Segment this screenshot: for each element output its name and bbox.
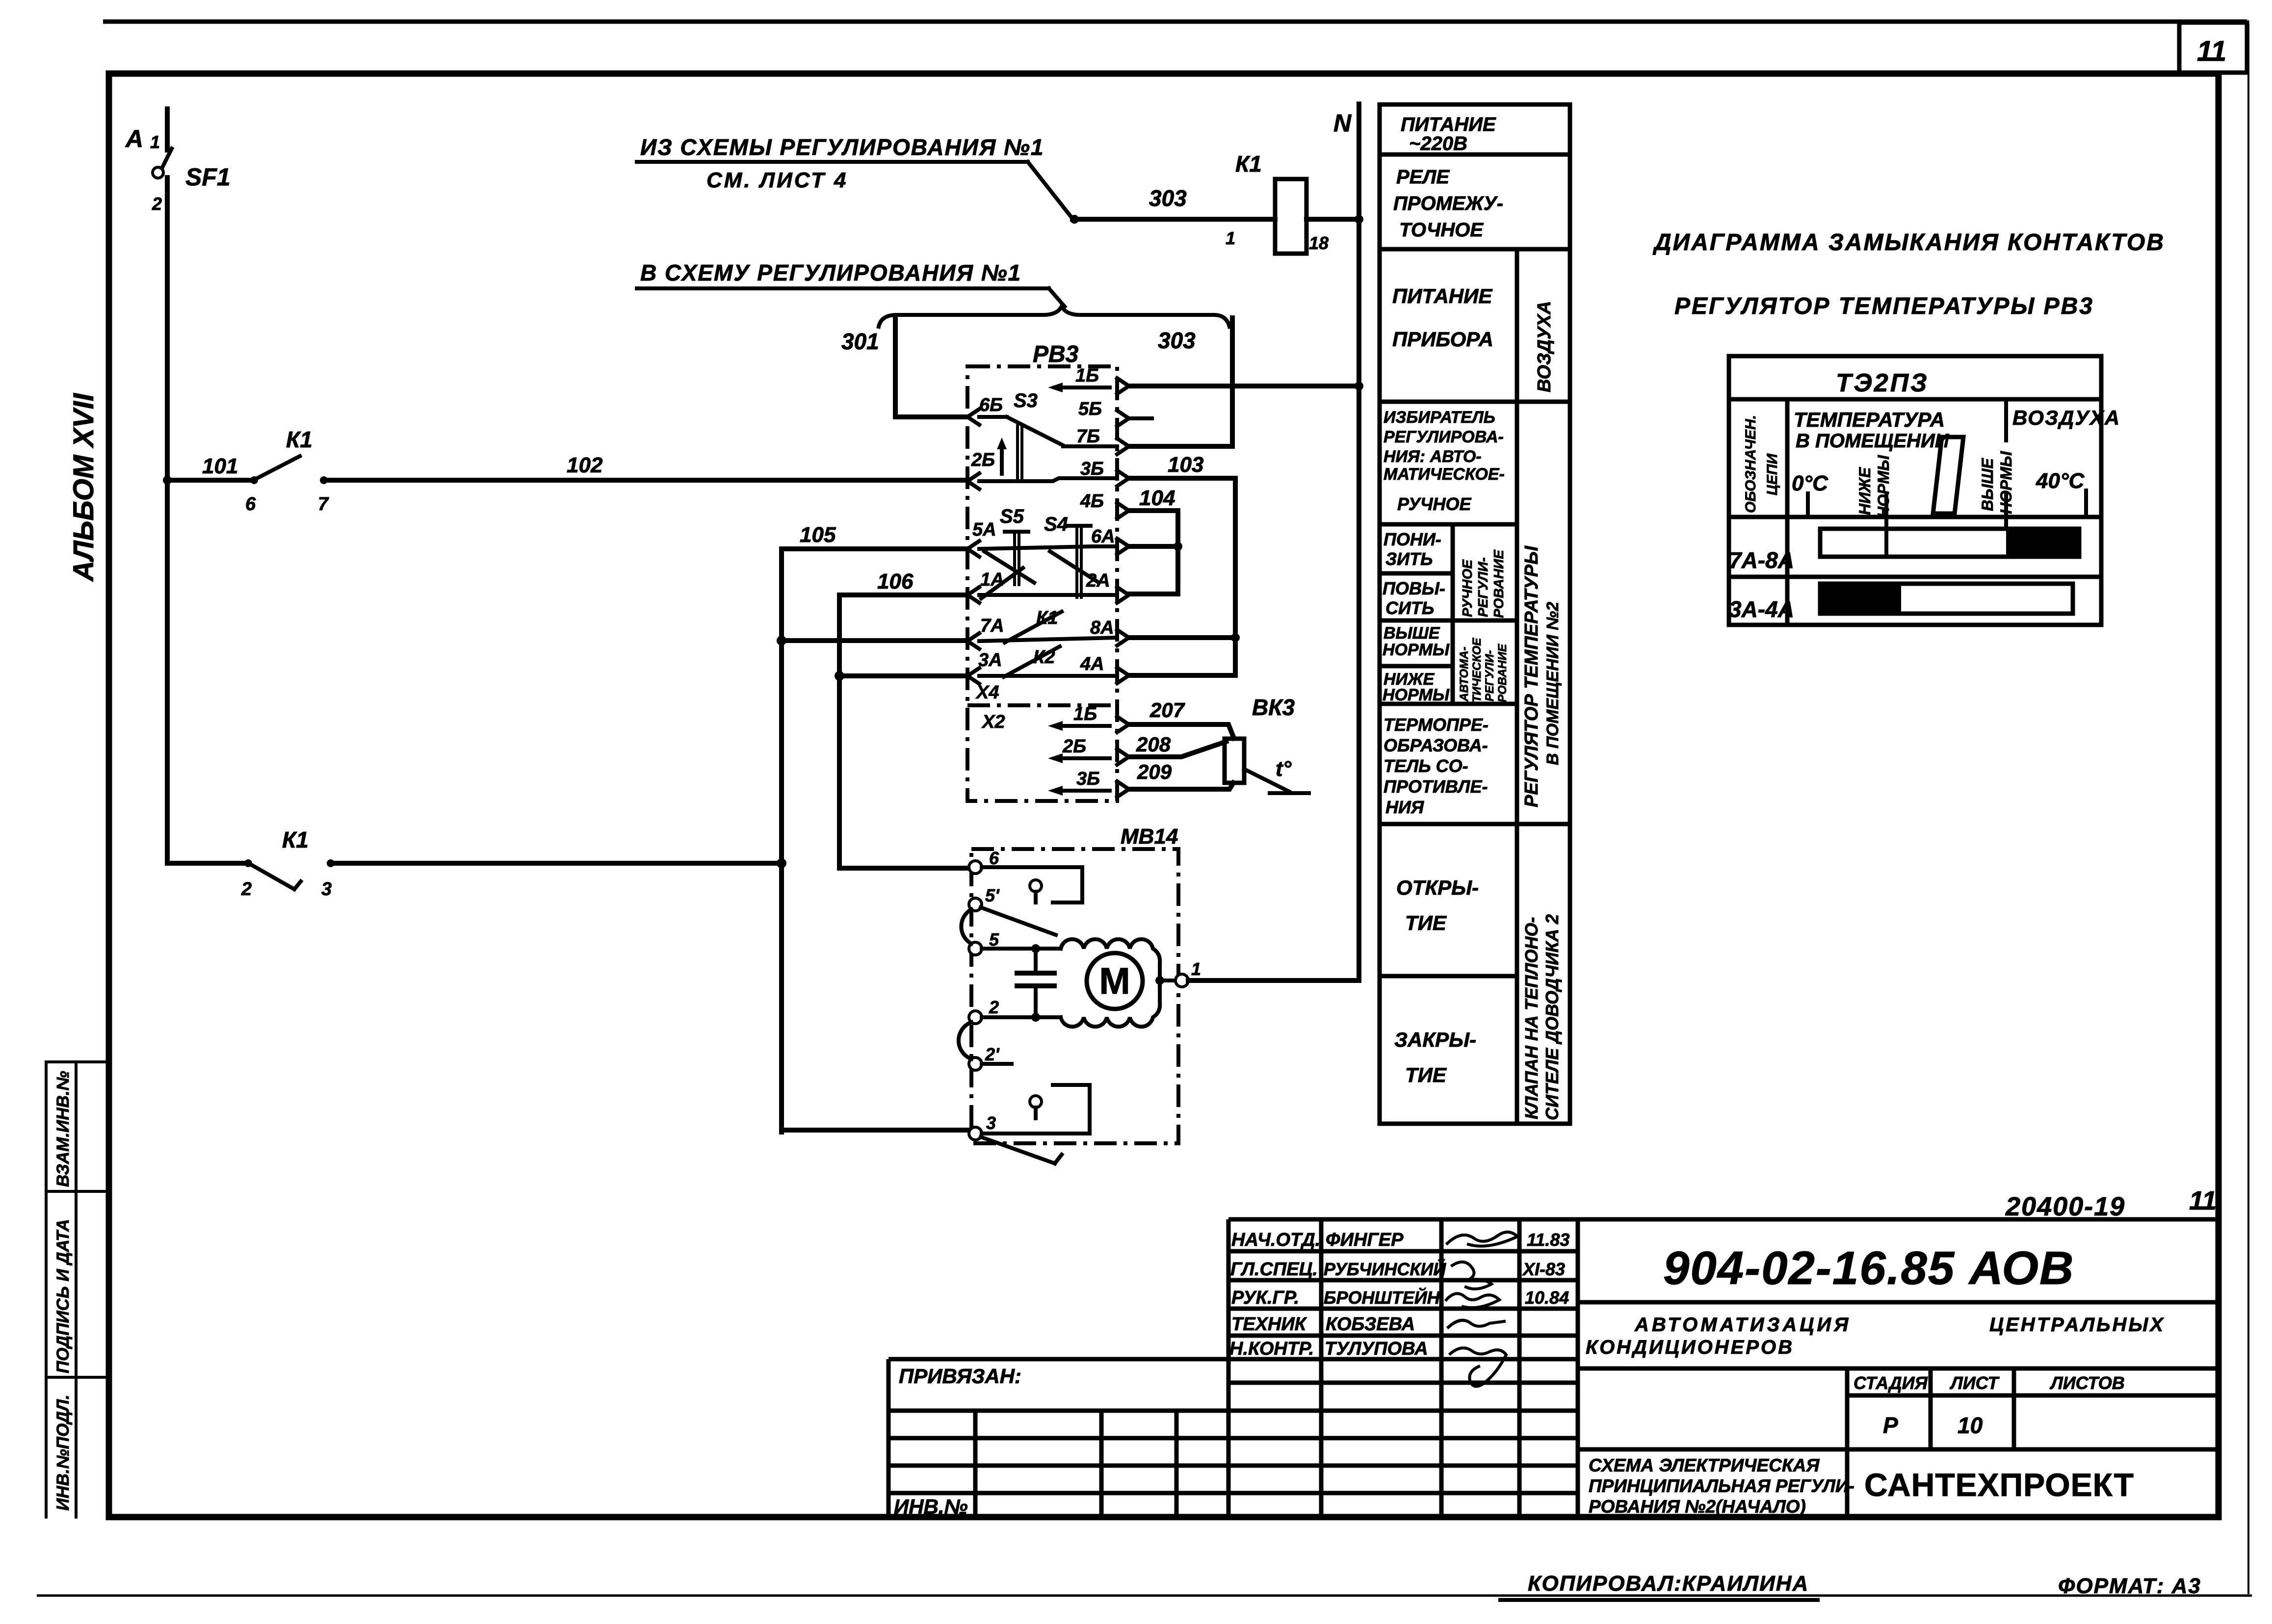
motor M circle: [1087, 953, 1143, 1009]
svg-text:Р: Р: [1883, 1413, 1898, 1438]
svg-text:ПОДПИСЬ И ДАТА: ПОДПИСЬ И ДАТА: [53, 1219, 73, 1373]
svg-text:ПРОТИВЛЕ-: ПРОТИВЛЕ-: [1384, 776, 1488, 797]
wire 207: [1129, 724, 1234, 738]
svg-text:ФИНГЕР: ФИНГЕР: [1326, 1230, 1404, 1250]
svg-text:ТЭ2ПЗ: ТЭ2ПЗ: [1836, 369, 1929, 397]
row 5A-6A internal wire: [979, 546, 1117, 549]
wire from bus A to motor terminal 3: [782, 1128, 970, 1132]
svg-text:А: А: [125, 125, 143, 153]
svg-text:3А-4А: 3А-4А: [1729, 596, 1794, 622]
brace over wires 301,303: [879, 306, 1229, 327]
svg-text:ВЗАМ.ИНВ.№: ВЗАМ.ИНВ.№: [53, 1071, 73, 1187]
row 1A-2A internal wire: [979, 593, 1117, 597]
svg-text:ОТКРЫ-: ОТКРЫ-: [1396, 876, 1479, 899]
svg-text:РУЧНОЕ: РУЧНОЕ: [1397, 494, 1472, 514]
breaker SF1 top lead: [165, 109, 170, 150]
svg-text:ИНВ.№: ИНВ.№: [894, 1495, 968, 1518]
diagram table frame: [1729, 356, 2101, 625]
switch S4 blade: [1050, 551, 1099, 583]
terminal 5A: [967, 541, 979, 557]
setpoint parallelogram: [1933, 437, 1963, 514]
svg-text:6А: 6А: [1091, 526, 1115, 547]
svg-text:ТОЧНОЕ: ТОЧНОЕ: [1399, 219, 1484, 241]
wire 106 to terminal 1A: [839, 593, 967, 597]
wire 301 vertical: [895, 318, 967, 417]
svg-text:НИЖЕ: НИЖЕ: [1856, 466, 1874, 515]
svg-text:РУЧНОЕ: РУЧНОЕ: [1460, 559, 1475, 617]
terminal 2: [969, 1011, 982, 1024]
direction arrow row 1B: [1056, 386, 1110, 389]
svg-text:СХЕМА ЭЛЕКТРИЧЕСКАЯ: СХЕМА ЭЛЕКТРИЧЕСКАЯ: [1589, 1455, 1820, 1475]
svg-text:6: 6: [989, 848, 999, 868]
wire 102: [324, 478, 967, 483]
svg-text:БРОНШТЕЙН: БРОНШТЕЙН: [1324, 1287, 1440, 1308]
svg-text:РЕГУЛЯТОР ТЕМПЕРАТУРЫ: РЕГУЛЯТОР ТЕМПЕРАТУРЫ: [1521, 545, 1542, 807]
svg-text:904-02-16.85 АОВ: 904-02-16.85 АОВ: [1663, 1242, 2074, 1294]
svg-text:N: N: [1333, 109, 1352, 137]
svg-text:7А: 7А: [980, 616, 1004, 636]
junction 6A/104: [1174, 542, 1182, 551]
wire 105 to terminal 5A: [782, 546, 967, 551]
svg-text:1: 1: [150, 132, 160, 152]
svg-text:ОБРАЗОВА-: ОБРАЗОВА-: [1384, 735, 1488, 755]
svg-text:ИНВ.№ПОДЛ.: ИНВ.№ПОДЛ.: [53, 1394, 73, 1511]
svg-text:СМ. ЛИСТ 4: СМ. ЛИСТ 4: [706, 168, 848, 192]
terminal 7A: [967, 633, 979, 649]
svg-text:ВЫШЕ: ВЫШЕ: [1384, 624, 1440, 643]
terminal 1A: [967, 587, 979, 603]
svg-text:SF1: SF1: [185, 163, 231, 191]
svg-text:ВК3: ВК3: [1252, 695, 1295, 720]
wire 104 (4B down to 6A,2A): [1129, 511, 1178, 594]
legend table frame: [1380, 104, 1570, 1124]
svg-text:Н.КОНТР.: Н.КОНТР.: [1229, 1339, 1314, 1359]
svg-text:5Б: 5Б: [1078, 399, 1102, 419]
wire from SF1 line to contact K1 (2-3): [167, 861, 245, 866]
wire 6A: [1129, 544, 1178, 549]
terminal 6A: [1117, 539, 1129, 554]
svg-text:7Б: 7Б: [1076, 426, 1100, 447]
svg-text:КОПИРОВАЛ:КРАИЛИНА: КОПИРОВАЛ:КРАИЛИНА: [1528, 1572, 1809, 1596]
limit switch top contact: [1030, 880, 1042, 892]
terminal 3B lower: [1117, 781, 1129, 797]
svg-text:2: 2: [989, 997, 999, 1017]
title block outline verticals: [1228, 1219, 1578, 1517]
setpoint up arrow: [1000, 445, 1004, 474]
row 3A-4A internal wire: [979, 674, 1117, 678]
wire 303 vertical to terminal 7B: [1128, 318, 1232, 446]
svg-text:РОВАНИЯ №2(НАЧАЛО): РОВАНИЯ №2(НАЧАЛО): [1589, 1496, 1806, 1517]
wire 208: [1129, 742, 1226, 757]
svg-text:ПРИНЦИПИАЛЬНАЯ РЕГУЛИ-: ПРИНЦИПИАЛЬНАЯ РЕГУЛИ-: [1589, 1476, 1854, 1496]
link bracket 5'-5: [961, 909, 971, 944]
switch S3 lead: [979, 415, 1007, 419]
svg-text:ТУЛУПОВА: ТУЛУПОВА: [1325, 1339, 1428, 1359]
svg-text:ЛИСТОВ: ЛИСТОВ: [2049, 1373, 2125, 1393]
svg-text:301: 301: [841, 329, 879, 354]
svg-text:ТЕХНИК: ТЕХНИК: [1231, 1314, 1307, 1335]
switch S5 blade: [984, 551, 1034, 583]
svg-text:0°С: 0°С: [1792, 471, 1828, 495]
svg-text:ЗАКРЫ-: ЗАКРЫ-: [1394, 1028, 1476, 1051]
svg-text:СИТЬ: СИТЬ: [1385, 598, 1434, 618]
relay coil K1: [1275, 179, 1306, 254]
leader to brace: [1049, 288, 1065, 307]
svg-text:ИЗБИРАТЕЛЬ: ИЗБИРАТЕЛЬ: [1384, 408, 1495, 427]
svg-text:В СХЕМУ РЕГУЛИРОВАНИЯ №1: В СХЕМУ РЕГУЛИРОВАНИЯ №1: [640, 260, 1021, 285]
stub at 5B: [1129, 416, 1152, 420]
junction N / 1B wire: [1355, 382, 1363, 390]
svg-text:РОВАНИЕ: РОВАНИЕ: [1496, 644, 1509, 702]
wire to terminal 1: [1160, 979, 1175, 982]
svg-text:РЕГУЛИРОВА-: РЕГУЛИРОВА-: [1384, 428, 1504, 446]
svg-text:1: 1: [1226, 228, 1235, 248]
limit switch top blade: [981, 907, 1056, 935]
svg-text:ВОЗДУХА: ВОЗДУХА: [1534, 301, 1555, 392]
connector X4/X2 divider: [967, 703, 1117, 707]
svg-text:МАТИЧЕСКОЕ-: МАТИЧЕСКОЕ-: [1384, 465, 1505, 484]
junction at 101 wire: [163, 476, 172, 485]
svg-text:АВТОМА-: АВТОМА-: [1458, 647, 1471, 702]
terminal 4B: [1117, 503, 1129, 518]
svg-text:104: 104: [1139, 486, 1175, 510]
svg-text:3: 3: [986, 1113, 996, 1133]
wire 1B to N: [1129, 384, 1359, 388]
svg-text:ТИЧЕСКОЕ: ТИЧЕСКОЕ: [1470, 638, 1484, 702]
wire to 7B: [1063, 444, 1117, 448]
contact bar 7A-8A: [1820, 529, 2079, 557]
regulator RV3 enclosure (dash-dot): [967, 366, 1117, 801]
junction 8A/103: [1231, 633, 1240, 642]
svg-text:106: 106: [877, 569, 914, 593]
svg-text:ПРОМЕЖУ-: ПРОМЕЖУ-: [1393, 193, 1503, 214]
switch S5 actuator: [1005, 530, 1028, 534]
svg-text:7: 7: [318, 494, 329, 515]
svg-text:11.83: 11.83: [1527, 1230, 1569, 1250]
svg-text:105: 105: [800, 523, 836, 547]
junction N / coil wire: [1355, 215, 1363, 224]
svg-text:ГЛ.СПЕЦ.: ГЛ.СПЕЦ.: [1230, 1259, 1318, 1280]
linked-project block frame: [888, 1359, 1228, 1517]
note underline: [637, 160, 1028, 164]
svg-text:101: 101: [202, 454, 238, 478]
svg-text:В ПОМЕЩЕНИИ: В ПОМЕЩЕНИИ: [1796, 430, 1950, 452]
svg-text:5А: 5А: [972, 519, 996, 540]
motor winding top: [1061, 939, 1160, 980]
junction bus A / 7A wire: [777, 636, 786, 645]
wire from bus B to motor terminal 6: [839, 866, 970, 871]
wire to terminal 3A: [839, 673, 967, 678]
svg-text:КЛАПАН НА ТЕПЛОНО-: КЛАПАН НА ТЕПЛОНО-: [1521, 917, 1541, 1119]
svg-text:2Б: 2Б: [971, 450, 995, 470]
svg-text:АВТОМАТИЗАЦИЯ: АВТОМАТИЗАЦИЯ: [1634, 1314, 1851, 1336]
sensor leader to t: [1244, 769, 1309, 793]
svg-text:К1: К1: [282, 827, 309, 852]
svg-text:3Б: 3Б: [1080, 459, 1104, 479]
junction cap/2 row: [1031, 1013, 1040, 1022]
svg-text:НОРМЫ: НОРМЫ: [1383, 641, 1450, 659]
svg-text:6Б: 6Б: [979, 395, 1003, 415]
svg-text:ТЕМПЕРАТУРА: ТЕМПЕРАТУРА: [1794, 408, 1945, 431]
S3 mechanical link bars: [1018, 426, 1022, 479]
terminal 5B: [1117, 411, 1129, 426]
svg-text:5: 5: [989, 929, 999, 950]
terminal 3A: [967, 668, 979, 684]
terminal 1B lower: [1117, 717, 1129, 732]
switch S3 blade: [1007, 417, 1063, 445]
limit switch bottom blade: [981, 1137, 1062, 1163]
svg-text:ТИЕ: ТИЕ: [1405, 1063, 1447, 1086]
switch S4 actuator: [1067, 524, 1091, 528]
svg-text:1А: 1А: [980, 569, 1004, 590]
staff grid rows: [1228, 1251, 1578, 1493]
note underline: [637, 286, 1049, 290]
svg-text:ОБОЗНАЧЕН.: ОБОЗНАЧЕН.: [1743, 415, 1759, 513]
svg-text:М: М: [1099, 960, 1130, 1002]
signature squiggles: [1447, 1232, 1517, 1246]
svg-text:ПРИВЯЗАН:: ПРИВЯЗАН:: [899, 1365, 1021, 1388]
bus A vertical (net 105): [779, 549, 784, 1130]
svg-text:S4: S4: [1044, 514, 1068, 535]
terminal 2A: [1117, 587, 1129, 603]
svg-text:ПРИБОРА: ПРИБОРА: [1392, 328, 1493, 351]
leader from note to wire 303: [1028, 162, 1073, 219]
svg-text:ТИЕ: ТИЕ: [1405, 911, 1447, 934]
svg-text:НОРМЫ: НОРМЫ: [1875, 455, 1892, 518]
terminal 7B: [1117, 438, 1129, 454]
svg-text:ВЫШЕ: ВЫШЕ: [1979, 458, 1996, 511]
svg-text:303: 303: [1158, 328, 1196, 353]
junction winding/terminal 1: [1155, 976, 1164, 985]
svg-text:8А: 8А: [1090, 618, 1114, 638]
svg-text:40°С: 40°С: [2036, 469, 2085, 493]
svg-text:2Б: 2Б: [1062, 736, 1086, 757]
direction arrow row 1B lower: [1056, 724, 1110, 728]
scale/row dividers: [1729, 517, 2101, 577]
svg-text:4Б: 4Б: [1080, 491, 1104, 512]
svg-text:ФОРМАТ: А3: ФОРМАТ: А3: [2058, 1574, 2201, 1598]
svg-text:4А: 4А: [1080, 654, 1104, 674]
svg-text:РЕГУЛЯТОР ТЕМПЕРАТУРЫ РВ3: РЕГУЛЯТОР ТЕМПЕРАТУРЫ РВ3: [1674, 293, 2094, 319]
svg-text:ПИТАНИЕ: ПИТАНИЕ: [1392, 284, 1493, 308]
svg-text:ВОЗДУХА: ВОЗДУХА: [2012, 406, 2120, 429]
svg-text:10: 10: [1958, 1413, 1983, 1438]
terminal 6: [969, 861, 982, 874]
svg-text:НИЯ: НИЯ: [1385, 797, 1424, 817]
svg-text:XI-83: XI-83: [1522, 1259, 1565, 1279]
svg-text:КОБЗЕВА: КОБЗЕВА: [1326, 1314, 1415, 1335]
terminal 6B: [967, 409, 979, 425]
svg-text:ИЗ СХЕМЫ РЕГУЛИРОВАНИЯ №1: ИЗ СХЕМЫ РЕГУЛИРОВАНИЯ №1: [640, 134, 1044, 160]
capacitor: [1017, 973, 1054, 986]
svg-text:18: 18: [1309, 233, 1329, 253]
svg-text:ЦЕПИ: ЦЕПИ: [1764, 453, 1780, 495]
terminal 8A: [1117, 630, 1129, 645]
wire 303 to relay coil: [1072, 217, 1275, 222]
row 2B-3B internal wire: [979, 478, 1117, 481]
svg-text:РУБЧИНСКИЙ: РУБЧИНСКИЙ: [1324, 1259, 1446, 1279]
wire from contact 3 to bus A: [331, 861, 782, 866]
scale tick 0: [1806, 493, 1810, 517]
svg-text:~220В: ~220В: [1409, 133, 1467, 155]
svg-text:ЦЕНТРАЛЬНЫХ: ЦЕНТРАЛЬНЫХ: [1989, 1314, 2165, 1336]
title block top border: [1228, 1217, 2219, 1222]
terminal 3B: [1117, 470, 1129, 486]
actuator MV14 enclosure (dash-dot): [971, 849, 1178, 1143]
svg-text:В ПОМЕЩЕНИИ №2: В ПОМЕЩЕНИИ №2: [1543, 602, 1562, 765]
terminal 5: [969, 942, 982, 955]
sheet top edge line: [103, 20, 2247, 24]
svg-text:ПИТАНИЕ: ПИТАНИЕ: [1401, 114, 1496, 135]
terminal 5': [969, 898, 982, 911]
linked-project grid: [888, 1411, 1228, 1493]
svg-text:11: 11: [2197, 35, 2226, 67]
contact K2 blade: [1004, 646, 1060, 677]
header divider: [1729, 397, 2101, 402]
terminal 3: [969, 1127, 982, 1140]
scale tick 40: [2084, 490, 2088, 517]
svg-text:11: 11: [2189, 1186, 2217, 1215]
junction bus B / 3A wire: [835, 671, 844, 681]
svg-text:АЛЬБОМ ХVII: АЛЬБОМ ХVII: [68, 392, 100, 582]
svg-text:КОНДИЦИОНЕРОВ: КОНДИЦИОНЕРОВ: [1586, 1337, 1794, 1358]
wire 8A: [1129, 635, 1235, 640]
svg-text:ТЕРМОПРЕ-: ТЕРМОПРЕ-: [1384, 715, 1489, 735]
direction arrow row 3B lower: [1056, 789, 1110, 793]
terminal 2B: [967, 473, 979, 489]
contact bar 3A-4A: [1820, 584, 2073, 614]
legend column lines: [1453, 249, 1517, 1124]
svg-text:7А-8А: 7А-8А: [1729, 547, 1794, 573]
left stamp strip borders: [46, 1062, 109, 1517]
svg-text:20400-19: 20400-19: [2005, 1192, 2125, 1221]
svg-text:1Б: 1Б: [1073, 704, 1097, 724]
contact K1 (2-3) open contact: [244, 859, 252, 867]
svg-text:Х2: Х2: [981, 712, 1005, 732]
wire 103 (3B down to 8A,4A): [1129, 478, 1235, 675]
svg-text:НАЧ.ОТД.: НАЧ.ОТД.: [1231, 1230, 1320, 1250]
svg-text:РЕЛЕ: РЕЛЕ: [1396, 166, 1450, 188]
svg-text:К1: К1: [1235, 151, 1262, 177]
terminal 4A: [1117, 668, 1129, 683]
svg-text:ПОНИ-: ПОНИ-: [1384, 529, 1441, 549]
row 7A-8A internal wire: [979, 638, 1117, 641]
svg-text:207: 207: [1149, 698, 1185, 722]
terminal 2B lower: [1117, 749, 1129, 765]
svg-text:209: 209: [1137, 760, 1172, 783]
limit switch top fixed path: [982, 867, 1082, 902]
wire to terminal 7A: [782, 638, 967, 643]
svg-text:СИТЕЛЕ ДОВОДЧИКА 2: СИТЕЛЕ ДОВОДЧИКА 2: [1542, 914, 1562, 1120]
svg-text:РЕГУЛИ-: РЕГУЛИ-: [1475, 557, 1490, 617]
svg-text:ТЕЛЬ СО-: ТЕЛЬ СО-: [1384, 756, 1468, 776]
wire 101: [167, 478, 251, 483]
link bracket 2-2': [959, 1022, 971, 1059]
row under code: [1578, 1300, 2219, 1305]
junction cap/5 row: [1031, 944, 1040, 953]
svg-text:1Б: 1Б: [1075, 365, 1099, 386]
svg-text:2': 2': [985, 1044, 1000, 1064]
svg-text:К1: К1: [286, 427, 313, 452]
svg-text:5': 5': [985, 885, 1000, 905]
svg-text:РВ3: РВ3: [1033, 341, 1079, 367]
junction on wire 303: [1070, 215, 1079, 224]
svg-text:Х4: Х4: [975, 682, 999, 703]
svg-text:103: 103: [1168, 453, 1203, 477]
contact K1 blade: [1005, 612, 1062, 643]
svg-text:303: 303: [1149, 185, 1187, 211]
svg-text:S5: S5: [1000, 506, 1024, 527]
limit switch bottom contact: [1030, 1096, 1042, 1108]
wire terminal 1 to N: [1188, 978, 1359, 983]
svg-text:208: 208: [1136, 733, 1171, 756]
legend row lines: [1380, 155, 1570, 824]
svg-text:РУК.ГР.: РУК.ГР.: [1231, 1288, 1299, 1308]
wire from SF1 down left side: [165, 178, 170, 863]
switch blade at 1A: [981, 568, 1023, 598]
page number box: [2179, 23, 2247, 73]
svg-text:ЛИСТ: ЛИСТ: [1949, 1373, 2000, 1393]
svg-text:10.84: 10.84: [1525, 1288, 1569, 1308]
terminal 1: [1175, 974, 1188, 987]
wire 5 row: [982, 947, 1061, 951]
svg-text:РЕГУЛИ-: РЕГУЛИ-: [1483, 650, 1496, 701]
svg-text:РОВАНИЕ: РОВАНИЕ: [1491, 549, 1506, 618]
svg-text:3: 3: [321, 879, 332, 900]
svg-text:НИЯ: АВТО-: НИЯ: АВТО-: [1384, 447, 1482, 466]
svg-text:САНТЕХПРОЕКТ: САНТЕХПРОЕКТ: [1864, 1467, 2134, 1503]
svg-text:3Б: 3Б: [1076, 769, 1100, 789]
svg-text:102: 102: [567, 453, 603, 477]
svg-text:НОРМЫ: НОРМЫ: [1383, 686, 1450, 704]
contact K1 (6-7) open contact: [250, 476, 258, 484]
wire 209: [1129, 783, 1233, 789]
svg-text:3А: 3А: [978, 650, 1002, 670]
organization divider: [1845, 1449, 1850, 1517]
stub from 2': [982, 1062, 1012, 1066]
svg-text:МВ14: МВ14: [1121, 825, 1178, 849]
terminal 2': [969, 1057, 982, 1070]
svg-text:t°: t°: [1276, 757, 1292, 781]
svg-text:S3: S3: [1014, 390, 1038, 412]
direction arrow row 2B lower: [1056, 756, 1110, 760]
motor winding bottom: [1061, 980, 1160, 1027]
sensor VK3 resistor body: [1225, 739, 1244, 783]
svg-text:ДИАГРАММА ЗАМЫКАНИЯ КОНТАК: ДИАГРАММА ЗАМЫКАНИЯ КОНТАКТОВ: [1652, 230, 2165, 256]
stage/sheet header row: [1578, 1368, 2219, 1449]
svg-text:2: 2: [152, 194, 162, 214]
bus B vertical (net 106): [837, 595, 842, 868]
terminal 1B: [1117, 378, 1129, 394]
wire 2 row: [982, 1015, 1061, 1019]
tick above norm: [2004, 403, 2008, 529]
svg-text:ЗИТЬ: ЗИТЬ: [1385, 549, 1433, 569]
net N vertical line: [1357, 104, 1361, 980]
sheet bottom edge line: [37, 1595, 2252, 1597]
svg-text:1: 1: [1191, 959, 1201, 979]
svg-text:2: 2: [241, 879, 252, 900]
svg-text:ПОВЫ-: ПОВЫ-: [1383, 578, 1445, 598]
junction bus A / K1 wire: [777, 858, 786, 868]
breaker SF1 blade: [162, 149, 172, 168]
wire coil to N: [1306, 217, 1359, 222]
tick below norm: [1884, 494, 1888, 557]
sheet right edge line: [2247, 24, 2249, 1594]
limit switch bottom fixed path: [982, 1085, 1090, 1134]
svg-text:6: 6: [245, 494, 256, 515]
breaker SF1 pivot circle: [153, 167, 163, 178]
left column divider: [1785, 399, 1790, 625]
